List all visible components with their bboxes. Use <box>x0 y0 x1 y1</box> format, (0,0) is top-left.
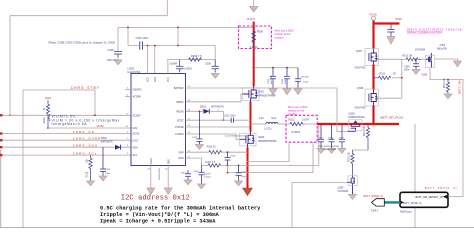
inductor L300 <box>266 122 278 124</box>
ground below C308 <box>211 72 219 78</box>
svg-text:0.10R: 0.10R <box>302 118 309 122</box>
junction output sense <box>318 123 320 125</box>
ground below C306 <box>114 58 122 65</box>
mosfet Q308 (AC fet 2) <box>365 89 379 106</box>
page border bottom <box>0 227 474 229</box>
wire output sense vertical <box>318 124 320 165</box>
svg-text:BATT_SNS[0..4]: BATT_SNS[0..4] <box>403 202 422 205</box>
ground below C320 <box>235 181 243 186</box>
svg-text:location.: location. <box>275 36 285 40</box>
wire gate bus FET1 <box>377 58 402 60</box>
svg-text:C308: C308 <box>205 63 211 66</box>
wire R313 to Q303 gate <box>421 58 426 60</box>
pin GND wire down <box>167 166 169 189</box>
capacitor C319 <box>198 165 204 184</box>
svg-text:L3V: L3V <box>259 116 264 120</box>
resistor R313 <box>406 58 421 61</box>
svg-text:2N7002W: 2N7002W <box>415 50 426 52</box>
wire D301 to BTST vertical <box>223 111 225 120</box>
svg-text:R310 10k: R310 10k <box>444 77 446 88</box>
svg-text:Q301: Q301 <box>258 90 265 94</box>
svg-text:Q303: Q303 <box>422 75 428 77</box>
wire SRP to red <box>221 151 248 153</box>
svg-text:ILIM: ILIM <box>133 127 138 130</box>
svg-text:IRF8656TRPBF: IRF8656TRPBF <box>258 139 277 143</box>
resistor R317 (inline SRN) <box>208 164 221 167</box>
power RGN arrow top <box>250 0 258 12</box>
junction SRN/C318 <box>227 165 229 167</box>
svg-text:680ACD368A10UF900: 680ACD368A10UF900 <box>407 31 442 35</box>
svg-text:ACDRV: ACDRV <box>133 96 142 99</box>
mosfet Q301 <box>243 86 260 102</box>
svg-text:100n 3u3/16V 3u3/16V: 100n 3u3/16V 3u3/16V <box>318 146 340 148</box>
ground below C310 <box>294 89 302 95</box>
capacitor C303 <box>284 68 290 89</box>
pin PHASE wire <box>186 126 250 128</box>
svg-text:CHRG_STBY: CHRG_STBY <box>71 86 100 90</box>
svg-text:resistor at this: resistor at this <box>275 32 292 36</box>
svg-text:Q302: Q302 <box>258 135 265 139</box>
wire battery low red vertical <box>247 147 249 188</box>
wire frame left vertical <box>9 16 11 116</box>
wire VIN red vertical top <box>372 20 374 49</box>
wire ACDET net <box>0 114 131 116</box>
svg-text:2u2 (2G25/C)100L 0.5al: 2u2 (2G25/C)100L 0.5al <box>225 136 249 138</box>
wire VDR red horizontal <box>373 22 400 24</box>
ground below C317 <box>338 149 346 154</box>
svg-text:C318: C318 <box>230 156 236 158</box>
svg-text:BATT_INS_DETECT_IN: BATT_INS_DETECT_IN <box>415 196 442 199</box>
svg-text:C307 100n: C307 100n <box>136 36 149 40</box>
wire phase red vertical <box>250 102 252 132</box>
svg-text:CHRG_OVRR: CHRG_OVRR <box>73 137 102 141</box>
svg-text:Ipeak = Icharge + 0.5Iripple =: Ipeak = Icharge + 0.5Iripple = 343mA <box>100 218 216 224</box>
wire Q305 gate long <box>292 181 347 183</box>
wire off-page vertical x415 <box>414 124 416 228</box>
warning text box2 <box>288 105 308 116</box>
svg-text:SRN: SRN <box>178 157 183 160</box>
svg-text:NetGroup: NetGroup <box>400 209 412 213</box>
wire branch down to ACP row <box>127 27 129 45</box>
wire inductor input <box>251 123 267 125</box>
wire R311 to gate bus <box>392 77 402 79</box>
junction RGN/ACP row <box>253 26 255 28</box>
capacitor C302 <box>270 68 276 89</box>
junction C302 <box>272 67 274 69</box>
wire LODRV to Q302 gate <box>186 134 240 139</box>
svg-text:BTST: BTST <box>177 119 184 122</box>
mosfet Q307 (AC fet) <box>365 49 379 66</box>
svg-text:R313 10k: R313 10k <box>403 56 414 58</box>
svg-text:IchargeMax=0.5A: IchargeMax=0.5A <box>52 122 88 126</box>
wire SRN to output sense <box>220 164 319 166</box>
svg-text:CHRG_OK: CHRG_OK <box>73 130 95 134</box>
svg-text:LODRV: LODRV <box>175 133 184 136</box>
off-page tick CHRG_OVRR <box>0 139 2 141</box>
mosfet Q305 <box>347 175 357 194</box>
port chevron left <box>400 201 404 205</box>
svg-text:R-0603: R-0603 <box>292 130 301 134</box>
junction filter row at red <box>253 67 255 69</box>
capacitor C320 <box>236 165 242 181</box>
ground below R310 <box>444 94 452 99</box>
junction R311 tap <box>373 77 375 79</box>
svg-text:C313: C313 <box>181 172 187 174</box>
capacitor C307 (inline) <box>140 41 143 49</box>
wire BATT_INS_DETECT to BATT_VIN <box>448 196 463 198</box>
svg-text:C310: C310 <box>303 82 309 84</box>
wire frame top-left vertical <box>166 0 168 16</box>
junction BATT_INT <box>373 123 375 125</box>
svg-text:C311 100n: C311 100n <box>224 115 236 118</box>
wire CHRG_OVRR net <box>0 139 131 141</box>
svg-text:Q307: Q307 <box>356 50 363 53</box>
wire gate bus FET2 <box>377 97 402 99</box>
svg-text:100n: 100n <box>285 78 287 84</box>
svg-text:HIDRV: HIDRV <box>176 101 184 104</box>
wire gate bus to R313 <box>402 58 406 60</box>
mosfet Q306 (inline battery fet) <box>348 120 363 132</box>
svg-text:ACP: ACP <box>147 77 150 82</box>
wire mid vertical x178 <box>177 27 179 45</box>
ground below C314 <box>99 176 107 181</box>
capacitor C309 <box>413 59 419 69</box>
ground below Q305 <box>349 195 357 200</box>
svg-text:Iripple = (Vin-Vout)*D/(f *L): Iripple = (Vin-Vout)*D/(f *L) = 306mA <box>100 212 219 218</box>
wire CHRG_SCL net <box>0 154 131 156</box>
svg-text:680u/35V: 680u/35V <box>437 48 448 51</box>
wire ACP vertical into IC <box>147 46 149 74</box>
junction ACDET/CHRG_STBY <box>94 114 96 116</box>
svg-text:100-600: 100-600 <box>301 77 310 79</box>
svg-text:Place C305,C307,C308 close to: Place C305,C307,C308 close to charger IC… <box>49 41 116 45</box>
svg-text:R316 10: R316 10 <box>207 146 217 149</box>
wire ACP top horizontal <box>118 26 254 28</box>
resistor R300 (inside dashed box) <box>252 31 256 44</box>
svg-text:C312: C312 <box>192 137 198 139</box>
wire frame top-left horizontal <box>10 15 167 17</box>
resistor R306 <box>189 58 202 61</box>
svg-text:R318: R318 <box>86 171 89 177</box>
capacitor C317 <box>339 125 345 149</box>
svg-text:100n: 100n <box>241 176 247 178</box>
wire R312 right kelvin sense <box>228 142 314 172</box>
page border left <box>0 150 2 228</box>
wire R314 to R315 <box>353 149 369 151</box>
junction C309 <box>415 58 417 60</box>
svg-text:CMSRC: CMSRC <box>133 89 142 92</box>
svg-text:R312: R312 <box>289 118 296 122</box>
svg-text:3u3/6V: 3u3/6V <box>204 174 211 176</box>
ground below C312 <box>195 145 203 150</box>
wire divider drop vertical <box>291 182 293 227</box>
junction D301/BTST <box>223 119 225 121</box>
wire ILIM / VLIM net <box>48 127 131 129</box>
svg-text:C319: C319 <box>193 171 199 173</box>
wire Q303 source down <box>430 68 463 80</box>
off-page tick CHRG_OK <box>0 132 2 134</box>
svg-text:location.: location. <box>288 112 298 116</box>
svg-text:3u3/6R: 3u3/6R <box>170 63 178 66</box>
svg-text:IRF8656TRPBF: IRF8656TRPBF <box>258 94 277 98</box>
capacitor C310 <box>295 68 301 89</box>
svg-text:C303: C303 <box>282 78 284 84</box>
off-page tick ACDET <box>0 114 2 116</box>
svg-text:C306: C306 <box>108 48 115 52</box>
svg-text:C320: C320 <box>241 171 247 173</box>
resistor R316 (inline SRP) <box>209 151 222 154</box>
svg-text:CHRG_SCL: CHRG_SCL <box>73 152 98 156</box>
svg-text:SCL: SCL <box>133 154 138 157</box>
wire right vertical x215 <box>214 46 216 60</box>
capacitor C314 <box>100 147 106 176</box>
svg-text:GND: GND <box>168 159 170 164</box>
svg-text:RGN: RGN <box>247 17 255 21</box>
bus BATT_SNS teal <box>384 201 401 203</box>
junction C303 <box>286 67 288 69</box>
wire BATDRV vertical to Q306 gate <box>337 88 348 132</box>
mask gap of C307 <box>140 45 142 47</box>
power red ground arrow <box>243 188 253 196</box>
pin ACDRV stub <box>125 96 131 98</box>
svg-text:I2C address 0x12: I2C address 0x12 <box>121 195 190 203</box>
svg-text:PHASE: PHASE <box>175 126 184 129</box>
warning text box1 <box>275 29 295 40</box>
pin PGND wire down <box>150 166 152 189</box>
wire BATT_INT_PLUS red horizontal <box>317 123 399 125</box>
svg-text:7,5-4,7: 7,5-4,7 <box>371 210 379 213</box>
svg-text:bq24725A: bq24725A <box>128 70 141 74</box>
wire CHRG_OK net <box>0 133 131 135</box>
svg-text:IOUT: IOUT <box>133 139 139 142</box>
svg-text:BATT_SNS[0..4]: BATT_SNS[0..4] <box>425 186 457 190</box>
svg-text:BATT_SNS[0..4]: BATT_SNS[0..4] <box>364 194 383 198</box>
svg-text:3u3/6V/X5R: 3u3/6V/X5R <box>159 168 161 180</box>
off-page tick CHRG_SOA <box>0 146 2 148</box>
svg-text:ACN: ACN <box>154 77 157 82</box>
ground below C313 <box>184 180 192 185</box>
capacitor C312 (REGN) <box>196 111 202 144</box>
svg-text:C309: C309 <box>404 66 410 68</box>
junction phase/inductor <box>250 123 252 125</box>
svg-text:1R: 1R <box>393 72 396 75</box>
svg-text:Q308: Q308 <box>357 87 364 90</box>
resistor R315 <box>351 150 354 175</box>
svg-text:R317 7.5: R317 7.5 <box>206 161 216 164</box>
svg-text:C315: C315 <box>318 138 324 140</box>
pin REGN wire <box>186 110 204 112</box>
ground below R318 <box>87 181 95 186</box>
resistor R314 <box>366 125 369 150</box>
pin CMSRC stub <box>125 89 131 91</box>
svg-text:100n: 100n <box>404 70 410 72</box>
mosfet Q303 <box>426 53 435 68</box>
capacitor C315 <box>318 125 324 149</box>
svg-text:BATT_VIN: BATT_VIN <box>458 80 462 94</box>
hier block BATT box <box>400 192 448 207</box>
warning text electrolytic <box>407 27 463 34</box>
ground below C303 <box>283 89 291 95</box>
svg-text:4u7/X5R: 4u7/X5R <box>271 75 273 84</box>
wire Q308 to BATT node red <box>372 106 374 126</box>
port arrow right <box>443 195 448 199</box>
wire VCC filter row <box>254 67 299 69</box>
junction divider <box>227 172 229 174</box>
svg-text:BATT_INT_PLUS: BATT_INT_PLUS <box>381 115 404 119</box>
wire ACP vertical to IC <box>154 46 156 74</box>
wire RGN thick red vertical <box>253 22 255 87</box>
svg-text:L-1210: L-1210 <box>264 128 272 131</box>
svg-text:R303: R303 <box>43 117 46 124</box>
svg-text:RGN: RGN <box>45 96 51 100</box>
svg-text:0.5C charging rate for the 300: 0.5C charging rate for the 300mAh intern… <box>100 205 261 211</box>
svg-text:C317: C317 <box>339 138 345 140</box>
ground below GND <box>164 188 172 195</box>
off-page flag BATT_SNS <box>372 199 385 206</box>
svg-text:100n: 100n <box>105 173 111 175</box>
junction SRN/C320 <box>238 165 240 167</box>
svg-text:SRP: SRP <box>179 151 184 154</box>
capacitor C305 <box>176 60 183 73</box>
resistor R303 <box>46 100 49 128</box>
capacitor C308 <box>212 60 219 73</box>
capacitor C316 <box>329 125 335 149</box>
svg-text:C-0603 C-0603: C-0603 C-0603 <box>322 149 337 151</box>
wire CHRG_STBY right vertical <box>94 90 96 115</box>
wire BATT_VIN vertical <box>462 80 464 197</box>
dashed warning box 2 <box>286 115 317 142</box>
wire VCC vertical into IC <box>167 60 169 74</box>
wire CHRG_STBY horizontal <box>23 89 95 91</box>
op-amp U300 body <box>131 74 186 166</box>
svg-text:BAT54LPS: BAT54LPS <box>212 105 225 108</box>
dashed warning box 1 <box>239 26 272 49</box>
svg-text:SDA: SDA <box>133 146 138 149</box>
svg-text:VDR: VDR <box>395 17 402 21</box>
resistor R310 <box>446 80 449 95</box>
pin BTST wire <box>186 119 251 121</box>
pin SRN wire <box>186 158 208 165</box>
svg-text:ACOK: ACOK <box>133 133 140 136</box>
svg-text:PGnd: PGnd <box>151 158 153 165</box>
svg-text:CMPDM7002A: CMPDM7002A <box>348 116 365 119</box>
wire HIDRV to Q301 gate <box>186 94 243 102</box>
capacitor C311 (inline on BTST) <box>231 118 234 123</box>
diode D301 <box>204 109 210 114</box>
pin BATDRV wire <box>186 87 337 89</box>
svg-text:R315 10k: R315 10k <box>349 151 351 162</box>
svg-text:AON7405: AON7405 <box>355 107 367 110</box>
svg-text:Must use a 0603: Must use a 0603 <box>275 29 295 33</box>
ground below C315 <box>317 149 325 154</box>
ground right of Q303 <box>454 61 462 67</box>
wire C306 branch vertical <box>117 27 119 51</box>
svg-text:2N7002W: 2N7002W <box>338 190 349 193</box>
wire R312 left kelvin sense <box>247 142 290 162</box>
junction at 128,27.4 <box>127 27 129 29</box>
off-page tick CHRG_SCL <box>0 154 2 156</box>
ground below C305 <box>176 72 184 78</box>
mosfet Q302 <box>240 131 257 147</box>
pin SRP wire <box>186 151 209 153</box>
wire CHRG_SOA net <box>0 146 131 148</box>
junction frame/ACDET <box>9 114 11 116</box>
wire between AC fets red <box>372 65 374 90</box>
ground below C316 <box>328 149 336 154</box>
junction SRP/C318 <box>227 151 229 153</box>
resistor R312 (inside dashed box 2) <box>290 122 304 125</box>
svg-text:BATDRV: BATDRV <box>174 87 184 90</box>
ground below C302 <box>269 89 277 95</box>
junction ACP <box>154 45 156 47</box>
capacitor C318 <box>225 152 231 165</box>
wire left long vertical <box>22 90 24 228</box>
resistor R318 (SCL pulldown) <box>89 155 92 181</box>
diode D300 <box>115 145 121 150</box>
connector VINS circle <box>371 16 375 20</box>
capacitor C313 <box>185 170 191 180</box>
svg-text:R306 7.5: R306 7.5 <box>191 54 202 58</box>
junction x178 top <box>177 27 179 29</box>
svg-text:ACSET: ACSET <box>133 114 142 117</box>
svg-text:AON7405: AON7405 <box>355 66 367 69</box>
ground below C309 <box>412 70 420 75</box>
junction R310 <box>447 79 449 81</box>
wire R312 out <box>304 123 319 125</box>
svg-text:R311: R311 <box>380 72 386 75</box>
svg-text:C302: C302 <box>268 78 270 84</box>
wire Q303 top to gnd right <box>435 59 458 61</box>
junction gate bus <box>401 77 403 79</box>
capacitor C306 <box>114 52 122 58</box>
svg-text:R314 10k: R314 10k <box>364 125 366 136</box>
svg-text:REGN: REGN <box>176 110 183 113</box>
junction ACP <box>147 45 149 47</box>
ground below C319 <box>197 184 205 189</box>
note VILIM text block <box>52 114 120 126</box>
junction REGN/C312 <box>199 110 201 112</box>
svg-text:VINS: VINS <box>369 12 377 16</box>
svg-text:VCC: VCC <box>168 77 170 82</box>
capacitor C300 (VDR) <box>387 25 394 37</box>
wire R306 row <box>167 59 215 61</box>
wire gate bus vertical <box>401 59 403 98</box>
svg-text:Vout: Vout <box>271 116 276 120</box>
svg-text:C316: C316 <box>328 138 334 140</box>
svg-text:0.4x2.0: 0.4x2.0 <box>204 177 212 179</box>
svg-text:VLIM: VLIM <box>97 124 105 128</box>
svg-text:CHRG_SOA: CHRG_SOA <box>73 144 98 148</box>
svg-text:BAT54LPS: BAT54LPS <box>101 141 113 144</box>
junction R303/ILIM <box>47 127 49 129</box>
svg-text:D301: D301 <box>200 105 207 108</box>
ground below C300 <box>387 37 395 45</box>
ground below PGND <box>147 188 155 195</box>
svg-text:R300: R300 <box>257 30 264 34</box>
resistor R311 <box>374 76 391 79</box>
svg-text:C314: C314 <box>105 169 111 171</box>
wire ACP row horizontal <box>128 45 215 47</box>
svg-text:C-0603: C-0603 <box>184 67 193 70</box>
wire D301 cathode <box>209 110 223 112</box>
wire inductor to R312 <box>278 123 290 125</box>
junction x178 bottom <box>177 45 179 47</box>
